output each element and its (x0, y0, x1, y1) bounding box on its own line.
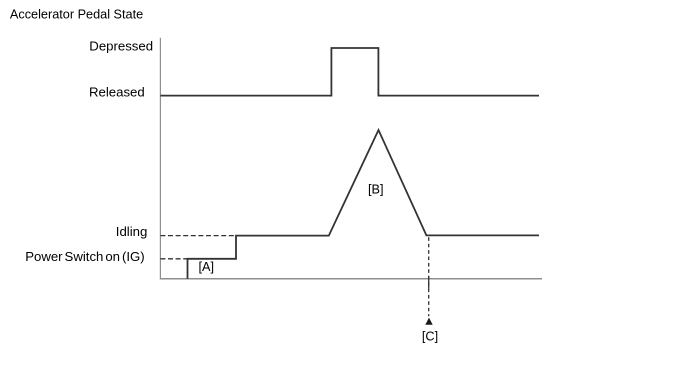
dashed vertical marker line C (428, 237, 430, 316)
engine speed waveform (steps and triangle B) (188, 130, 540, 279)
svg-text:[A]: [A] (199, 260, 215, 274)
svg-text:Accelerator Pedal State: Accelerator Pedal State (10, 7, 143, 21)
svg-text:[B]: [B] (368, 182, 384, 196)
svg-text:Depressed: Depressed (89, 38, 153, 53)
accelerator pedal waveform (pulse) (160, 48, 539, 96)
dashed guide at Idling level (160, 235, 236, 237)
svg-text:Released: Released (89, 85, 145, 100)
svg-text:Power Switch on (IG): Power Switch on (IG) (25, 249, 145, 264)
dashed guide at Power Switch on (IG) level (160, 258, 187, 260)
axis vertical line (159, 38, 161, 279)
arrowhead of marker C (pointing up) (425, 318, 432, 325)
svg-text:Idling: Idling (116, 224, 148, 239)
svg-text:[C]: [C] (422, 329, 438, 343)
axis baseline (time axis) (160, 278, 542, 280)
solid run of marker C across baseline (428, 276, 430, 289)
